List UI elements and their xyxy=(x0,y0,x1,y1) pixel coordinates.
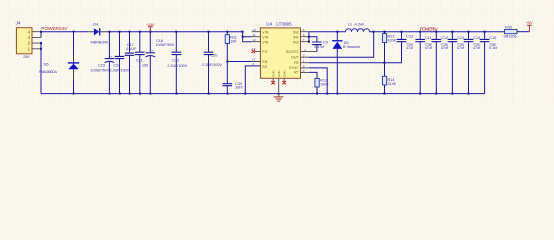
svg-text:11: 11 xyxy=(252,33,255,37)
junction: C17 ground xyxy=(129,93,131,95)
connector J4 xyxy=(15,21,42,59)
svg-text:OUT: OUT xyxy=(291,56,299,60)
svg-text:47uf: 47uf xyxy=(457,46,465,50)
svg-text:100K: 100K xyxy=(388,38,397,42)
svg-text:VIN: VIN xyxy=(262,30,268,34)
svg-text:24V: 24V xyxy=(22,55,30,59)
junction: C12b ground xyxy=(435,93,437,95)
svg-text:2: 2 xyxy=(252,62,254,66)
junction: C12b top xyxy=(435,31,437,33)
wire: RT to R13 xyxy=(309,72,317,78)
resistor R11 10K xyxy=(225,32,237,62)
svg-text:C12: C12 xyxy=(172,59,179,63)
junction: C11 ground xyxy=(419,93,421,95)
boost capacitor C9 0.47uf xyxy=(309,37,328,52)
power symbol +5V xyxy=(526,20,533,32)
junction: C21 top xyxy=(139,31,141,33)
junction: C23 top xyxy=(108,31,110,33)
junction: R13 ground xyxy=(316,93,318,95)
svg-text:C12: C12 xyxy=(441,36,448,40)
junction: IC ground pin at rail xyxy=(278,93,280,95)
wire: FB line xyxy=(309,62,402,64)
junction: C13 top xyxy=(451,31,453,33)
svg-text:8: 8 xyxy=(303,64,305,68)
capacitor C17 0.1UF xyxy=(125,32,137,94)
svg-text:9: 9 xyxy=(303,69,305,73)
svg-text:PG: PG xyxy=(262,50,267,54)
capacitor C24 2.2UF/100V xyxy=(110,32,130,94)
svg-text:7: 7 xyxy=(303,38,305,42)
svg-text:2.2UF/100V: 2.2UF/100V xyxy=(110,69,130,73)
wire: VIN branch column and rows xyxy=(243,32,252,42)
svg-text:4: 4 xyxy=(304,48,306,52)
wire: main +24V top rail from connector to D4 xyxy=(41,31,88,33)
ground symbol xyxy=(274,94,284,102)
svg-text:GND: GND xyxy=(277,70,281,78)
svg-text:EN: EN xyxy=(262,60,267,64)
svg-text:0.1UF: 0.1UF xyxy=(126,47,137,51)
catch diode D5 xyxy=(332,32,361,94)
svg-text:+: + xyxy=(110,55,112,59)
svg-text:2.2UF/100V: 2.2UF/100V xyxy=(167,64,187,68)
svg-text:RT: RT xyxy=(294,71,300,75)
junction: C16 ground xyxy=(150,93,152,95)
capacitor C20 2.2UF/100V xyxy=(202,32,222,94)
junction: C14 ground xyxy=(468,93,470,95)
junction: C12 top xyxy=(175,31,177,33)
TVS diode D6 SMAJ340CA xyxy=(39,54,79,80)
resistor R14 314K xyxy=(382,63,396,94)
svg-text:0.47uf: 0.47uf xyxy=(314,45,325,49)
bottom pin stubs xyxy=(273,78,284,92)
svg-text:SW: SW xyxy=(293,35,299,39)
junction: D5 ground xyxy=(336,93,338,95)
capacitor C14 Cap 47uf xyxy=(464,32,481,94)
svg-text:SW: SW xyxy=(293,30,299,34)
junction: C15 top xyxy=(484,31,486,33)
capacitor C13 Cap 47uf xyxy=(448,32,465,94)
wire: ground bottom rail xyxy=(41,93,485,95)
svg-text:C20: C20 xyxy=(210,54,217,58)
no-connect X bottom pin left xyxy=(271,81,275,85)
wire: connector pin2-pin1-ground column xyxy=(40,43,42,94)
wire: SW merge column xyxy=(308,32,310,42)
junction: pin3 tie xyxy=(40,31,42,33)
svg-text:4.2uh: 4.2uh xyxy=(355,22,365,27)
svg-text:47uf: 47uf xyxy=(406,46,414,50)
capacitor C10 Cap 47uf (feedforward) xyxy=(397,32,414,63)
junction: C10 top xyxy=(401,31,403,33)
svg-text:+: + xyxy=(151,49,153,53)
junction: C11 top xyxy=(419,31,421,33)
junction: C21 ground xyxy=(139,93,141,95)
junction: C14 top xyxy=(468,31,470,33)
svg-text:1: 1 xyxy=(303,59,305,63)
svg-text:VIN: VIN xyxy=(262,40,268,44)
junction: D6 top xyxy=(73,31,75,33)
svg-text:314K: 314K xyxy=(388,82,397,86)
svg-text:LT3995: LT3995 xyxy=(276,22,292,27)
junction: EN / C19 node xyxy=(226,61,228,63)
junction: OUT riser top xyxy=(373,31,375,33)
junction: C24 ground xyxy=(119,93,121,95)
capacitor C15 Cap 0.1uf xyxy=(480,32,498,94)
junction: SW row2 xyxy=(308,36,310,38)
junction: C16 top / +24V xyxy=(149,31,151,33)
junction: R14 ground xyxy=(384,93,386,95)
svg-text:POWER24V: POWER24V xyxy=(41,26,68,32)
svg-text:D6: D6 xyxy=(44,62,50,67)
junction: SW row3 xyxy=(308,41,310,43)
svg-text:105: 105 xyxy=(142,63,148,67)
svg-text:SMAJ340CA: SMAJ340CA xyxy=(39,70,58,74)
diode D4 MBRB340 xyxy=(88,21,109,44)
junction: C13 ground xyxy=(451,93,453,95)
capacitor C21 105 xyxy=(135,32,148,94)
no-connect X on PG pin xyxy=(252,50,256,54)
junction: C17 top xyxy=(129,31,131,33)
wire: EN line from R11 to IC xyxy=(227,61,252,63)
svg-text:B Varactor: B Varactor xyxy=(343,45,361,49)
svg-text:VIN: VIN xyxy=(262,35,268,39)
resistor R10 0R1206 (series) xyxy=(504,25,530,38)
junction: C23 ground xyxy=(109,93,111,95)
svg-text:15: 15 xyxy=(252,57,256,61)
svg-text:SW: SW xyxy=(293,40,299,44)
junction: FB divider node xyxy=(384,62,386,64)
junction: VIN row2 branch xyxy=(242,36,244,38)
junction: C24 top xyxy=(119,31,121,33)
capacitor C12 2.2UF/100V xyxy=(167,32,187,94)
svg-text:5: 5 xyxy=(303,28,305,32)
resistor R13 100K xyxy=(315,79,329,94)
svg-text:U4: U4 xyxy=(266,22,272,27)
junction: C20 ground xyxy=(208,93,210,95)
junction: C12 ground xyxy=(176,93,178,95)
wire: TVS D6 column xyxy=(73,32,75,94)
svg-text:MBRB340: MBRB340 xyxy=(91,41,108,45)
wire: connector pin4-pin3 tie column xyxy=(40,32,42,38)
svg-text:D4: D4 xyxy=(93,21,99,26)
junction: D5 top xyxy=(336,31,338,33)
svg-text:SS: SS xyxy=(262,65,267,69)
wire: top rail D4 cathode to VIN branch column xyxy=(109,31,243,33)
svg-text:GND: GND xyxy=(282,70,286,78)
svg-text:10K: 10K xyxy=(230,40,237,44)
svg-text:C23: C23 xyxy=(98,63,105,67)
svg-text:6: 6 xyxy=(303,33,305,37)
IC U4 LT3995 xyxy=(252,22,317,92)
junction: R11 top xyxy=(226,31,228,33)
junction: SYNC ground xyxy=(326,93,328,95)
svg-text:GND: GND xyxy=(271,70,275,78)
svg-text:+24V: +24V xyxy=(146,22,155,27)
svg-text:10: 10 xyxy=(252,28,256,32)
junction: SS ground xyxy=(244,93,246,95)
svg-text:C14: C14 xyxy=(473,36,480,40)
wire: OUT pin riser xyxy=(309,32,374,58)
svg-text:C13: C13 xyxy=(457,36,464,40)
capacitor C16 100UF/50V (polarized) xyxy=(146,32,175,94)
svg-text:2.2UF/100V: 2.2UF/100V xyxy=(202,63,222,67)
wire: SW rail to L1 xyxy=(309,31,346,33)
svg-text:C15: C15 xyxy=(489,36,496,40)
svg-text:10nf: 10nf xyxy=(235,86,243,90)
svg-text:C10: C10 xyxy=(406,35,413,39)
wire: L1 to output rail xyxy=(370,31,505,33)
svg-text:J4: J4 xyxy=(15,21,21,26)
svg-text:100K: 100K xyxy=(320,83,329,87)
junction: D6 bottom xyxy=(73,93,75,95)
junction: R12 top xyxy=(384,31,386,33)
junction: pin2 tie xyxy=(40,42,42,44)
inductor L1 4.2uh xyxy=(346,22,370,32)
capacitor C12b Cap 47uf xyxy=(432,32,449,94)
svg-text:FB: FB xyxy=(294,61,299,65)
svg-text:R10: R10 xyxy=(505,25,512,29)
svg-text:C11: C11 xyxy=(425,36,432,40)
junction: C19 ground xyxy=(227,93,229,95)
svg-text:100UF/50V: 100UF/50V xyxy=(156,43,175,47)
capacitor C23 100UF/50V (polarized) xyxy=(91,32,115,94)
junction: C20 top xyxy=(208,31,210,33)
svg-text:12: 12 xyxy=(252,38,256,42)
wire: SYNC to ground xyxy=(309,68,327,94)
junction: pin1 tie xyxy=(40,48,42,50)
svg-text:SYNC: SYNC xyxy=(289,66,299,70)
svg-text:0.1uf: 0.1uf xyxy=(489,46,498,50)
capacitor C19 10nf xyxy=(223,62,244,94)
junction: VIN branch top xyxy=(242,31,244,33)
resistor R12 100K xyxy=(382,32,396,63)
svg-text:47uf: 47uf xyxy=(425,46,433,50)
svg-text:47uf: 47uf xyxy=(441,46,449,50)
svg-text:BOOST: BOOST xyxy=(286,50,299,54)
capacitor C11 Cap 47uf xyxy=(415,32,432,94)
svg-text:C24: C24 xyxy=(113,63,120,67)
wire: SS pin to ground xyxy=(245,66,260,94)
svg-text:C21: C21 xyxy=(136,59,143,63)
power symbol +24V xyxy=(146,22,155,32)
svg-text:3: 3 xyxy=(303,54,305,58)
left pin stubs xyxy=(252,32,261,62)
svg-text:0R1206: 0R1206 xyxy=(504,35,517,39)
no-connect X bottom pin right xyxy=(282,81,286,85)
svg-text:100UF/50V: 100UF/50V xyxy=(91,69,110,73)
svg-text:L1: L1 xyxy=(348,22,352,27)
svg-text:47uf: 47uf xyxy=(473,46,481,50)
right pin stubs xyxy=(301,32,317,73)
svg-text:+5V: +5V xyxy=(526,20,533,25)
